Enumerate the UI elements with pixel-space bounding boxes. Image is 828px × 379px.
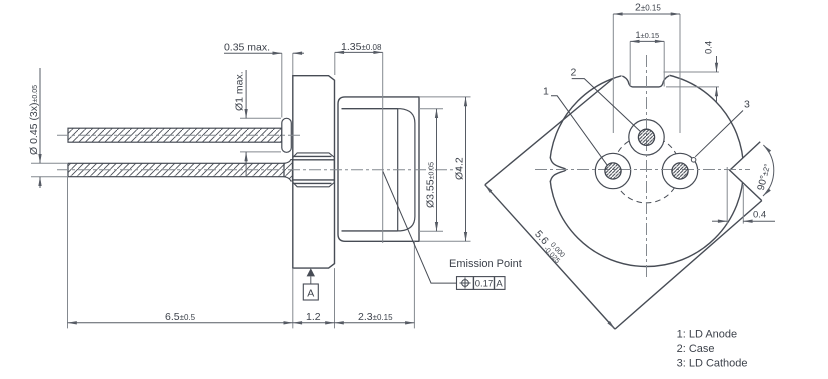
svg-text:Ø4.2: Ø4.2	[454, 157, 466, 180]
svg-text:0.4: 0.4	[753, 210, 766, 221]
svg-text:2: Case: 2: Case	[677, 343, 715, 355]
svg-text:3: LD Cathode: 3: LD Cathode	[677, 358, 748, 370]
svg-text:1: 1	[543, 86, 549, 98]
svg-text:6.5±0.5: 6.5±0.5	[165, 311, 196, 323]
svg-text:3: 3	[744, 99, 750, 111]
svg-text:A: A	[496, 279, 503, 290]
svg-text:Emission Point: Emission Point	[449, 258, 522, 270]
svg-text:1±0.15: 1±0.15	[636, 30, 660, 40]
svg-text:2.3±0.15: 2.3±0.15	[358, 311, 393, 323]
svg-text:1.35±0.08: 1.35±0.08	[341, 41, 382, 53]
svg-text:0.4: 0.4	[704, 41, 715, 54]
svg-text:2: 2	[571, 67, 577, 79]
svg-text:1.2: 1.2	[306, 311, 321, 323]
svg-text:Ø1 max.: Ø1 max.	[234, 71, 246, 111]
svg-text:A: A	[307, 287, 314, 299]
svg-text:0.17: 0.17	[475, 279, 494, 290]
svg-text:0.35 max.: 0.35 max.	[224, 42, 270, 54]
svg-text:2±0.15: 2±0.15	[635, 2, 661, 14]
svg-text:1: LD Anode: 1: LD Anode	[677, 329, 738, 341]
